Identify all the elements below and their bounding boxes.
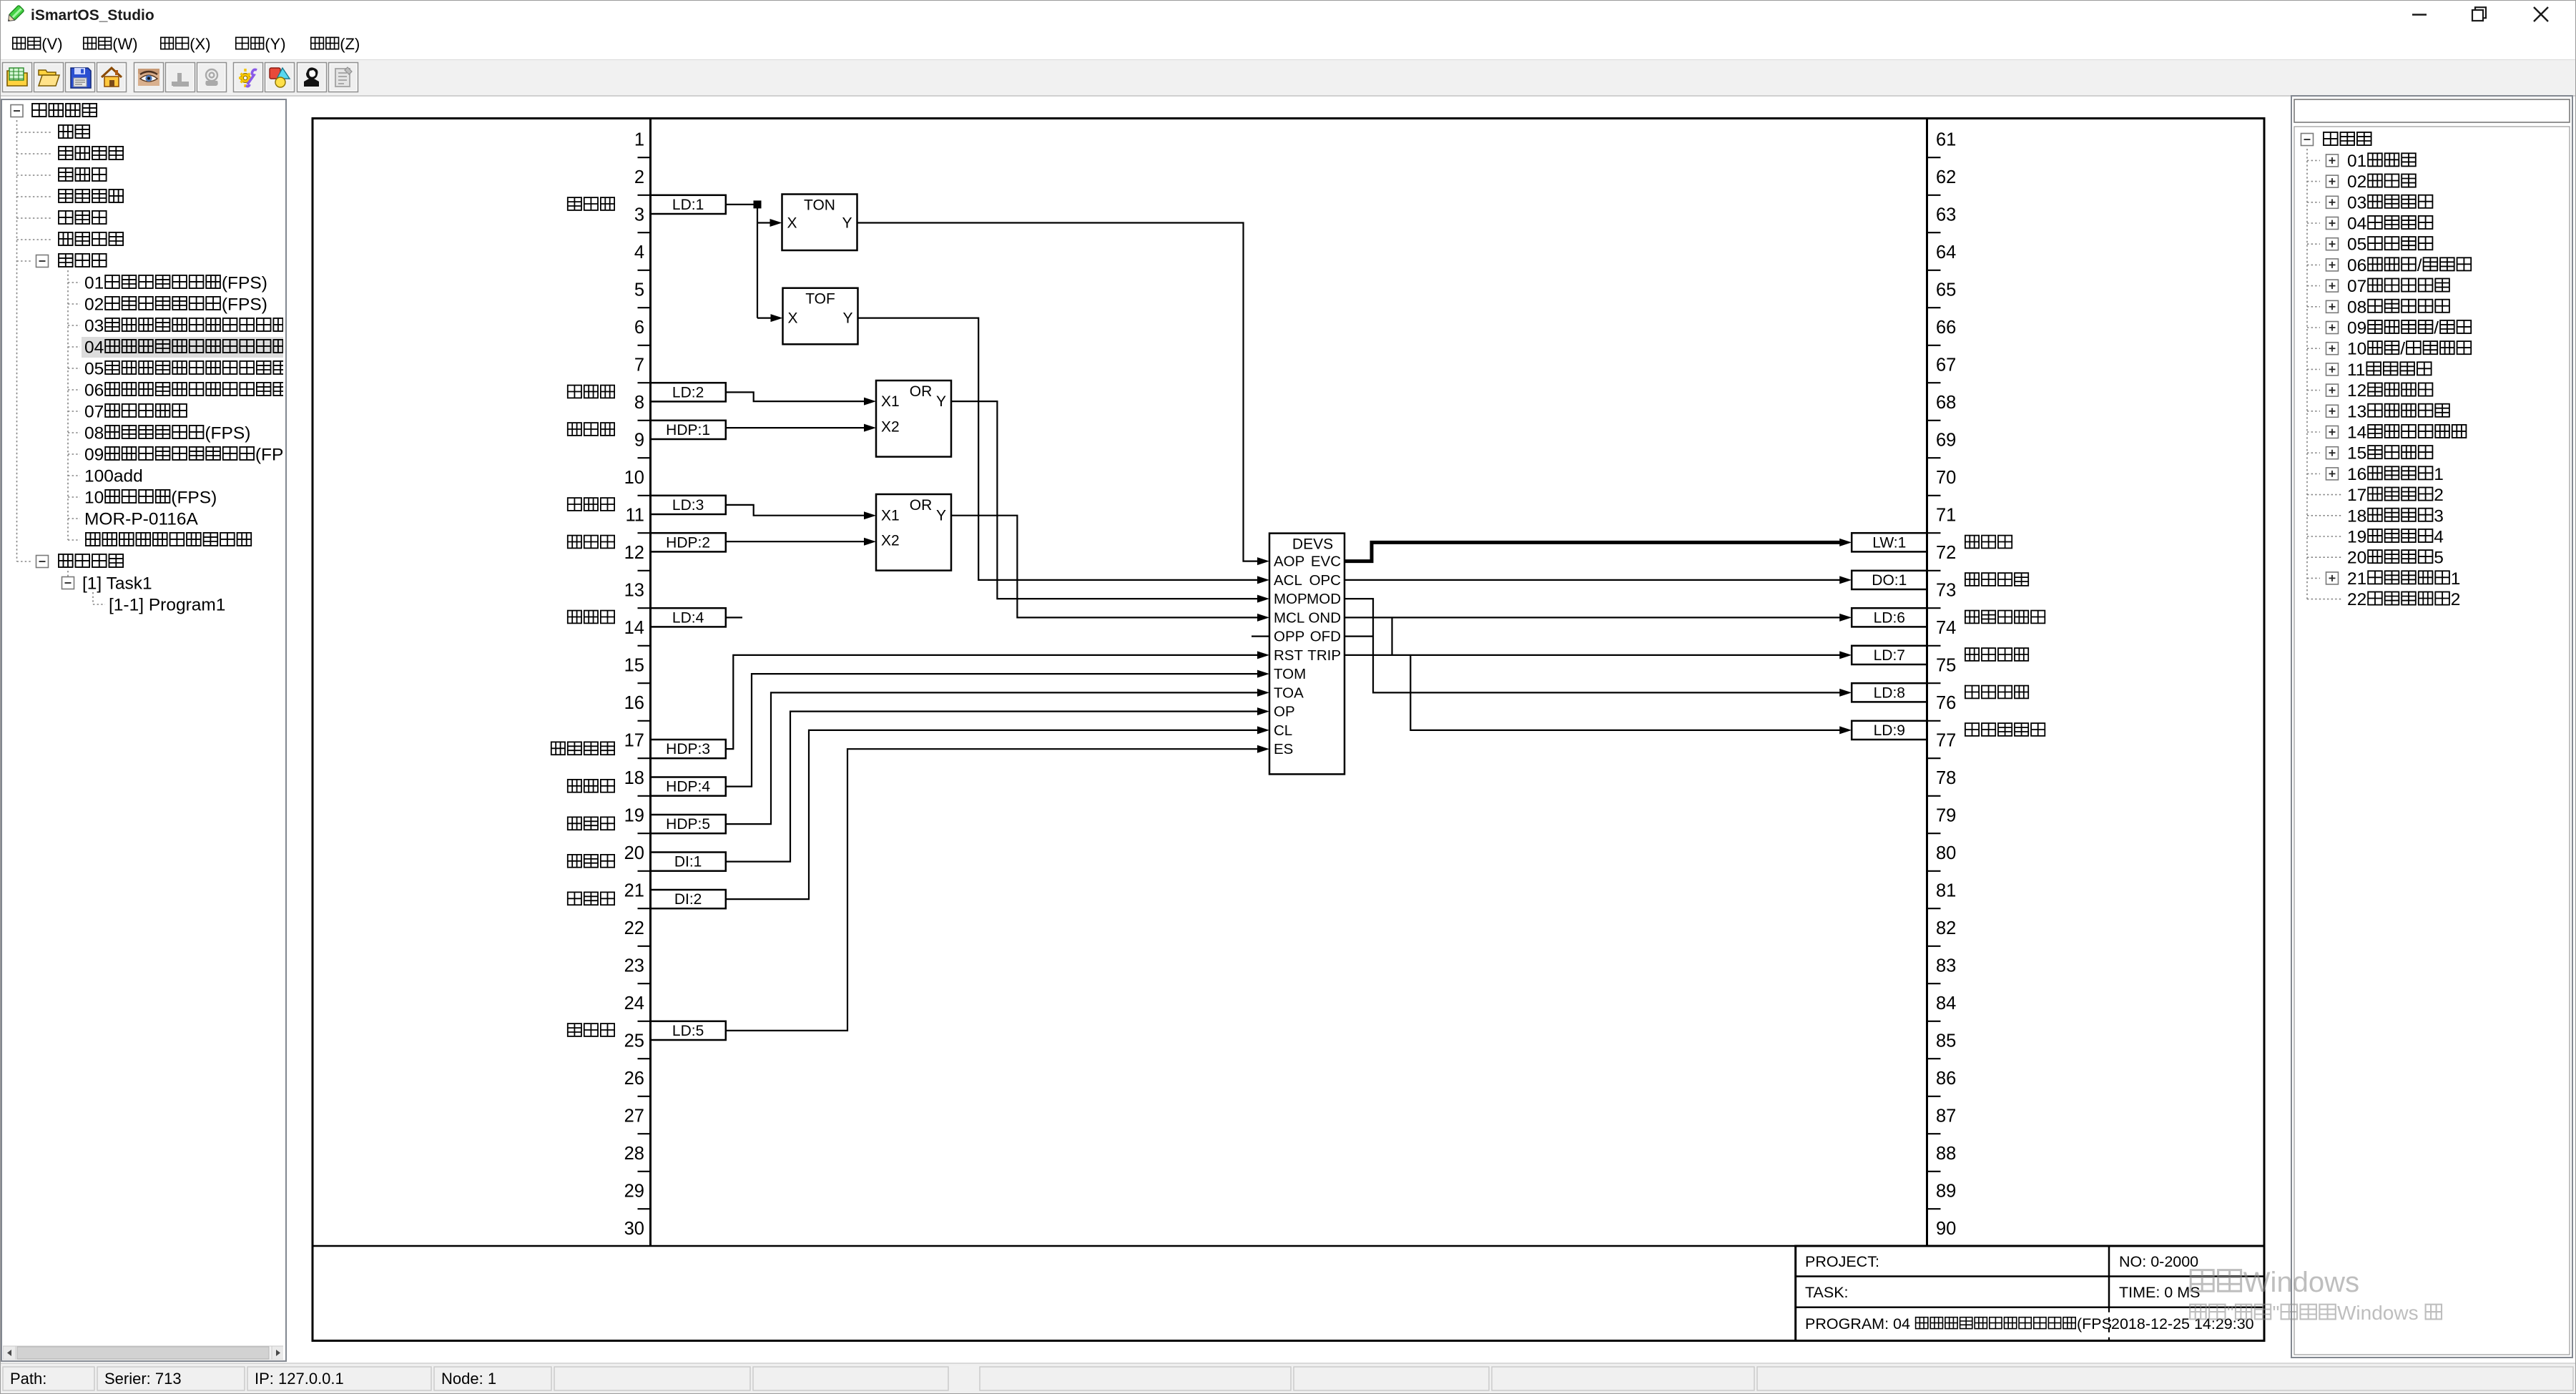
svg-text:3: 3 <box>634 205 644 225</box>
tree item 数据库 <box>17 168 107 181</box>
svg-text:70: 70 <box>1936 468 1956 488</box>
svg-text:(FPS): (FPS) <box>205 424 250 443</box>
svg-text:03: 03 <box>2347 193 2366 212</box>
svg-text:19: 19 <box>624 806 644 826</box>
tree item 22用户自定义2 <box>2307 590 2460 609</box>
svg-text:OP: OP <box>1274 704 1295 720</box>
search input <box>2294 99 2570 122</box>
tree item 趋势图 <box>17 211 107 224</box>
wire to TON X <box>757 219 782 227</box>
svg-text:71: 71 <box>1936 506 1956 526</box>
selected item highlight <box>82 337 285 358</box>
wire LD:2 to OR1 X1 <box>726 392 876 405</box>
stub LD:4 output <box>726 617 742 618</box>
svg-text:Y: Y <box>936 508 946 524</box>
svg-text:18: 18 <box>624 768 644 788</box>
svg-text:73: 73 <box>1936 581 1956 601</box>
svg-text:28: 28 <box>624 1144 644 1164</box>
svg-text:Path:: Path: <box>10 1370 46 1388</box>
svg-text:17: 17 <box>624 731 644 751</box>
svg-text:10: 10 <box>2347 340 2366 359</box>
block LD:7 <box>1852 646 1927 664</box>
tree item 09普通模拟量仿真模型(FPS) <box>68 446 301 465</box>
svg-text:(V): (V) <box>41 35 62 53</box>
tree root 功能块 <box>2301 132 2371 146</box>
svg-text:LW:1: LW:1 <box>1872 534 1906 551</box>
svg-text:66: 66 <box>1936 318 1956 338</box>
menu 文件(V) <box>13 35 63 53</box>
svg-text:04: 04 <box>2347 215 2366 234</box>
wire LD:5 to DEVS ES <box>726 745 1269 1031</box>
canvas border frame <box>313 119 2264 1341</box>
svg-text:OR: OR <box>910 497 933 514</box>
svg-text:01: 01 <box>84 274 104 293</box>
window title <box>31 7 154 24</box>
toolbar button 1 <box>3 63 32 92</box>
toolbar button 4 <box>97 63 127 92</box>
svg-text:69: 69 <box>1936 431 1956 451</box>
svg-text:81: 81 <box>1936 881 1956 901</box>
svg-text:(Z): (Z) <box>340 35 360 53</box>
svg-text:TRIP: TRIP <box>1307 647 1341 664</box>
svg-text:5: 5 <box>634 280 644 300</box>
svg-text:23: 23 <box>624 956 644 976</box>
wire DEVS OPC to DO:1 <box>1344 576 1852 584</box>
svg-text:16: 16 <box>2347 465 2366 484</box>
svg-text:": " <box>2273 1302 2280 1324</box>
svg-text:TON: TON <box>804 197 835 214</box>
menu 帮助(Z) <box>311 35 360 53</box>
svg-text:3: 3 <box>2434 506 2444 526</box>
tree item 18芝麻备用3 <box>2307 506 2444 526</box>
tree item 21用户自定义1 <box>2307 569 2460 589</box>
tree item 05单输入单输出开关量仿真模 <box>68 360 305 379</box>
wire HDP:3 to DEVS RST <box>726 651 1269 749</box>
svg-text:9: 9 <box>634 431 644 451</box>
svg-text:X2: X2 <box>881 533 900 549</box>
tree item 电子工厂 <box>17 232 124 245</box>
svg-text:DI:1: DI:1 <box>674 854 702 870</box>
svg-text:(F: (F <box>289 338 305 358</box>
tree item 15运动控制 <box>2307 444 2432 463</box>
net label 故障复位 <box>551 742 614 755</box>
svg-text:87: 87 <box>1936 1106 1956 1127</box>
svg-text:75: 75 <box>1936 656 1956 676</box>
svg-text:X1: X1 <box>881 508 900 524</box>
svg-text:27: 27 <box>624 1106 644 1127</box>
svg-text:LD:4: LD:4 <box>672 609 704 626</box>
svg-text:82: 82 <box>1936 918 1956 938</box>
svg-text:DI:2: DI:2 <box>674 891 702 908</box>
net label 开反馈 <box>568 855 614 868</box>
svg-text:85: 85 <box>1936 1031 1956 1051</box>
svg-text:21: 21 <box>2347 569 2366 589</box>
wire HDP:2 to OR2 X2 <box>726 538 876 546</box>
svg-text:MOD: MOD <box>1307 591 1341 607</box>
svg-text:2: 2 <box>2451 590 2461 609</box>
svg-text:LD:9: LD:9 <box>1874 722 1905 739</box>
tree item 02模拟量仿真模型(FPS) <box>68 295 267 315</box>
table text date <box>2111 1315 2254 1332</box>
tree item 100add <box>68 467 143 486</box>
svg-text:15: 15 <box>2347 444 2366 463</box>
stub DEVS OPP input <box>1252 635 1269 637</box>
wire OR2 Y to DEVS MCL <box>951 516 1269 622</box>
net label 顺控开 <box>568 386 614 398</box>
svg-text:26: 26 <box>624 1069 644 1089</box>
svg-text:8: 8 <box>634 393 644 413</box>
tree item 新建设备 <box>11 104 97 117</box>
svg-text:HDP:2: HDP:2 <box>666 534 710 551</box>
block LD:3 <box>651 496 726 514</box>
tree item 04算术运算 <box>2307 215 2432 234</box>
svg-text:DEVS: DEVS <box>1292 536 1333 553</box>
tree item 07控制类算法 <box>2307 277 2449 296</box>
svg-text:29: 29 <box>624 1182 644 1202</box>
wire DEVS TRIP to LD:7 <box>1344 651 1852 659</box>
svg-text:(FPS): (FPS) <box>171 489 217 508</box>
tree item 12数据通信 <box>2307 381 2432 401</box>
svg-text:OFD: OFD <box>1310 629 1341 645</box>
net label 手动开 <box>568 423 614 436</box>
svg-text:OR: OR <box>910 383 933 400</box>
net label 停止超时 <box>1965 686 2028 699</box>
svg-text:14: 14 <box>624 618 644 638</box>
svg-text:TOF: TOF <box>805 291 835 308</box>
tree item 标签监视 <box>17 190 124 202</box>
svg-text:(FPS): (FPS) <box>222 295 267 315</box>
tree item 04双输入单输出开关量模板(F <box>68 338 305 358</box>
svg-text:24: 24 <box>624 993 644 1013</box>
wire DI:1 to DEVS OP <box>726 707 1269 862</box>
svg-text:02: 02 <box>84 295 104 315</box>
minimize button <box>2412 14 2427 15</box>
svg-text:HDP:3: HDP:3 <box>666 741 710 757</box>
svg-text:Windows: Windows <box>2337 1302 2419 1324</box>
svg-text:OPP: OPP <box>1274 629 1304 645</box>
svg-text:30: 30 <box>624 1219 644 1239</box>
svg-text:68: 68 <box>1936 393 1956 413</box>
svg-text:79: 79 <box>1936 806 1956 826</box>
wire DEVS OND to LD:6 <box>1344 614 1852 622</box>
svg-text:HDP:1: HDP:1 <box>666 422 710 438</box>
svg-text:76: 76 <box>1936 693 1956 713</box>
svg-text:LD:7: LD:7 <box>1874 647 1905 664</box>
status bar <box>1 1363 2575 1393</box>
svg-text:25: 25 <box>624 1031 644 1051</box>
svg-text:05: 05 <box>2347 235 2366 255</box>
svg-text:4: 4 <box>634 242 644 262</box>
right rail <box>1926 119 1928 1247</box>
svg-text:20: 20 <box>624 843 644 863</box>
net label 自动开 <box>568 197 614 210</box>
left panel border <box>1 99 286 1361</box>
toolbar button 2 <box>34 63 64 92</box>
svg-text:72: 72 <box>1936 543 1956 563</box>
tree item 09数据移位/传送 <box>2307 319 2471 338</box>
svg-text:61: 61 <box>1936 130 1956 150</box>
svg-text:84: 84 <box>1936 993 1956 1013</box>
svg-text:NO: 0-2000: NO: 0-2000 <box>2119 1253 2198 1270</box>
sheet footer line <box>313 1245 2264 1247</box>
net label 无指令跳闸 <box>1965 723 2045 736</box>
toolbar strip <box>1 59 2575 97</box>
tree item 08电流仿真模型(FPS) <box>68 424 250 443</box>
status text Node <box>441 1370 496 1388</box>
svg-text:ES: ES <box>1274 741 1293 757</box>
gate block OR1 <box>876 381 951 457</box>
svg-text:100add: 100add <box>84 467 143 486</box>
svg-text:Y: Y <box>842 310 852 327</box>
svg-text:LD:2: LD:2 <box>672 384 704 401</box>
svg-text:/: / <box>2400 340 2405 359</box>
block DO:1 <box>1852 571 1927 589</box>
svg-text:12: 12 <box>2347 381 2366 401</box>
timer block TON <box>782 195 857 251</box>
svg-text:(Y): (Y) <box>265 35 285 53</box>
timer block TOF <box>783 288 858 345</box>
app icon <box>6 5 24 24</box>
svg-text:OND: OND <box>1308 609 1341 626</box>
block LD:8 <box>1852 683 1927 702</box>
svg-text:74: 74 <box>1936 618 1956 638</box>
block LD:6 <box>1852 608 1927 627</box>
net label 启动指令 <box>1965 573 2028 586</box>
rail row numbers <box>624 130 1957 1240</box>
svg-text:22: 22 <box>2347 590 2366 609</box>
svg-text:CL: CL <box>1274 722 1292 739</box>
svg-text:Serier: 713: Serier: 713 <box>104 1370 182 1388</box>
svg-text:X: X <box>788 310 798 327</box>
svg-text:PROGRAM: 04: PROGRAM: 04 <box>1805 1315 1910 1332</box>
svg-text:LD:8: LD:8 <box>1874 684 1905 701</box>
net label 启动超时 <box>1965 648 2028 661</box>
svg-text:PROJECT:: PROJECT: <box>1805 1253 1879 1270</box>
menu 编辑(W) <box>84 35 138 53</box>
rail tick marks <box>638 157 1941 1209</box>
svg-text:MCL: MCL <box>1274 609 1304 626</box>
svg-text:09: 09 <box>84 446 104 465</box>
tree item 03单输入单输出开关量模板(F <box>68 317 305 336</box>
wire LD:3 to OR2 X1 <box>726 505 876 519</box>
title block table <box>1796 1246 2264 1341</box>
bold wire DEVS EVC to LW:1 <box>1344 539 1852 561</box>
junction node <box>754 200 762 208</box>
toolbar button 5 <box>134 63 164 92</box>
wire branch to LD:9 <box>1410 655 1852 735</box>
svg-text:LD:6: LD:6 <box>1874 609 1905 626</box>
tree area border <box>2294 127 2570 1355</box>
svg-text:TOA: TOA <box>1274 684 1304 701</box>
svg-text:11: 11 <box>2347 360 2365 380</box>
block HDP:2 <box>651 533 726 551</box>
wire OR1 Y to DEVS MOP <box>951 401 1269 603</box>
svg-text:TASK:: TASK: <box>1805 1284 1849 1301</box>
right panel border <box>2291 96 2572 1358</box>
svg-text:04: 04 <box>84 338 104 358</box>
svg-text:ACL: ACL <box>1274 572 1302 589</box>
svg-text:07: 07 <box>84 403 104 422</box>
svg-text:09: 09 <box>2347 319 2366 338</box>
tree item MOR-P-0116A <box>68 510 199 529</box>
tree item 外设配置 <box>17 147 124 159</box>
wire HDP:4 to DEVS TOM <box>726 670 1269 787</box>
svg-text:RST: RST <box>1274 647 1303 664</box>
tree item 01模拟量驱动模板(FPS) <box>68 274 267 293</box>
svg-text:01: 01 <box>2347 152 2366 171</box>
tree item 双输入双输出设备模板 <box>68 533 251 546</box>
wire LD:1 to junction <box>726 204 757 205</box>
svg-text:83: 83 <box>1936 956 1956 976</box>
block HDP:1 <box>651 421 726 439</box>
tree item 02输出块 <box>2307 172 2416 192</box>
svg-text:10: 10 <box>84 489 104 508</box>
svg-text:02: 02 <box>2347 172 2366 192</box>
block HDP:3 <box>651 740 726 758</box>
tree item 11间接寻址 <box>2307 360 2432 380</box>
svg-text:65: 65 <box>1936 280 1956 300</box>
menu 视图(X) <box>161 35 211 53</box>
svg-text:iSmartOS_Studio: iSmartOS_Studio <box>31 7 154 24</box>
svg-text:(X): (X) <box>190 35 210 53</box>
tree item 10任务/程序调用 <box>2307 340 2471 359</box>
watermark activate windows <box>2190 1267 2442 1324</box>
svg-text:13: 13 <box>2347 402 2366 421</box>
svg-text:13: 13 <box>624 581 644 601</box>
table text PROGRAM <box>1805 1315 2112 1332</box>
svg-text:63: 63 <box>1936 205 1956 225</box>
block HDP:5 <box>651 815 726 833</box>
toolbar button 7 <box>197 63 227 92</box>
tree item 设备 <box>17 125 90 138</box>
svg-text:88: 88 <box>1936 1144 1956 1164</box>
svg-text:HDP:4: HDP:4 <box>666 779 710 795</box>
svg-text:1: 1 <box>2451 569 2461 589</box>
svg-text:06: 06 <box>84 381 104 401</box>
block DI:2 <box>651 890 726 908</box>
svg-text:05: 05 <box>84 360 104 379</box>
left tree connector lines <box>17 120 94 604</box>
svg-text:16: 16 <box>624 693 644 713</box>
wire HDP:5 to DEVS TOA <box>726 689 1269 824</box>
wire DEVS MOD to LD:8 <box>1344 599 1852 697</box>
svg-text:(FPS: (FPS <box>2077 1315 2112 1332</box>
svg-text:/: / <box>2434 319 2439 338</box>
svg-text:X2: X2 <box>881 419 900 436</box>
svg-text:22: 22 <box>624 918 644 938</box>
svg-text:[1] Task1: [1] Task1 <box>82 574 152 594</box>
net label 切自动 <box>568 817 614 830</box>
toolbar button 9 <box>265 63 295 92</box>
svg-text:77: 77 <box>1936 731 1956 751</box>
wire DI:2 to DEVS CL <box>726 726 1269 899</box>
svg-text:MOR-P-0116A: MOR-P-0116A <box>84 510 199 529</box>
svg-text:[1-1] Program1: [1-1] Program1 <box>109 596 225 615</box>
svg-text:5: 5 <box>2434 549 2444 568</box>
svg-text:86: 86 <box>1936 1069 1956 1089</box>
tree item 10报警模板(FPS) <box>68 489 217 508</box>
svg-text:78: 78 <box>1936 768 1956 788</box>
table text NO <box>2119 1253 2198 1270</box>
svg-text:03: 03 <box>84 317 104 336</box>
svg-text:LD:3: LD:3 <box>672 497 704 514</box>
svg-text:07: 07 <box>2347 277 2366 296</box>
tree item 17芝麻备用2 <box>2307 486 2444 505</box>
toolbar button 10 <box>298 63 327 92</box>
svg-text:1: 1 <box>634 130 644 150</box>
svg-text:OPC: OPC <box>1309 572 1342 589</box>
svg-text:EVC: EVC <box>1311 554 1341 570</box>
wire junction vertical <box>757 205 758 318</box>
tree item 14数据类型转换 <box>2307 423 2466 443</box>
toolbar button 6 <box>166 63 195 92</box>
tree item 03逻辑运算 <box>2307 193 2432 212</box>
svg-text:LD:5: LD:5 <box>672 1023 704 1039</box>
gate block OR2 <box>876 494 951 571</box>
net label 切手动 <box>568 780 614 792</box>
device block DEVS <box>1269 534 1344 775</box>
svg-text:18: 18 <box>2347 506 2366 526</box>
svg-text:2: 2 <box>634 167 644 187</box>
svg-text:TIME: 0 MS: TIME: 0 MS <box>2119 1284 2200 1301</box>
tree item 知识库 <box>17 254 107 267</box>
svg-text:X1: X1 <box>881 393 900 410</box>
svg-text:10: 10 <box>624 468 644 488</box>
svg-text:Y: Y <box>842 215 852 232</box>
svg-text:11: 11 <box>626 506 644 526</box>
wire HDP:1 to OR1 X2 <box>726 424 876 432</box>
block DI:1 <box>651 853 726 871</box>
svg-text:Windows: Windows <box>2243 1267 2359 1298</box>
svg-text:17: 17 <box>2347 486 2366 505</box>
svg-text:LD:1: LD:1 <box>672 197 704 213</box>
close button <box>2534 7 2548 21</box>
svg-text:(FPS): (FPS) <box>255 446 301 465</box>
svg-text:X: X <box>787 215 797 232</box>
block HDP:4 <box>651 777 726 796</box>
right tree trunk <box>2306 149 2308 599</box>
svg-text:AOP: AOP <box>1274 554 1304 570</box>
tree item 01输入块 <box>2307 152 2416 171</box>
svg-text:MOP: MOP <box>1274 591 1307 607</box>
table text TIME <box>2119 1284 2200 1301</box>
tree item 06双输入单输出开关量仿真模 <box>68 381 305 401</box>
svg-text:90: 90 <box>1936 1219 1956 1239</box>
svg-text:TOM: TOM <box>1274 666 1306 682</box>
svg-text:21: 21 <box>624 881 644 901</box>
status text Serier <box>104 1370 182 1388</box>
left panel horizontal scrollbar <box>3 1346 285 1360</box>
svg-text:Node: 1: Node: 1 <box>441 1370 496 1388</box>
svg-text:20: 20 <box>2347 549 2366 568</box>
block LD:9 <box>1852 721 1927 740</box>
tree item 08函数发生器 <box>2307 298 2449 317</box>
wire TOF Y to DEVS ACL <box>858 318 1270 584</box>
table text TASK <box>1805 1284 1849 1301</box>
wire TON Y to DEVS AOP <box>857 223 1270 566</box>
svg-text:12: 12 <box>624 543 644 563</box>
svg-text:19: 19 <box>2347 528 2366 547</box>
svg-text:6: 6 <box>634 318 644 338</box>
wire branch OND to LD:7 level <box>1391 617 1392 655</box>
svg-text:": " <box>2227 1302 2234 1324</box>
svg-text:14: 14 <box>2347 423 2366 443</box>
svg-text:08: 08 <box>2347 298 2366 317</box>
svg-text:Y: Y <box>936 393 946 410</box>
status text Path <box>10 1370 46 1388</box>
block LD:2 <box>651 383 726 401</box>
svg-text:89: 89 <box>1936 1182 1956 1202</box>
